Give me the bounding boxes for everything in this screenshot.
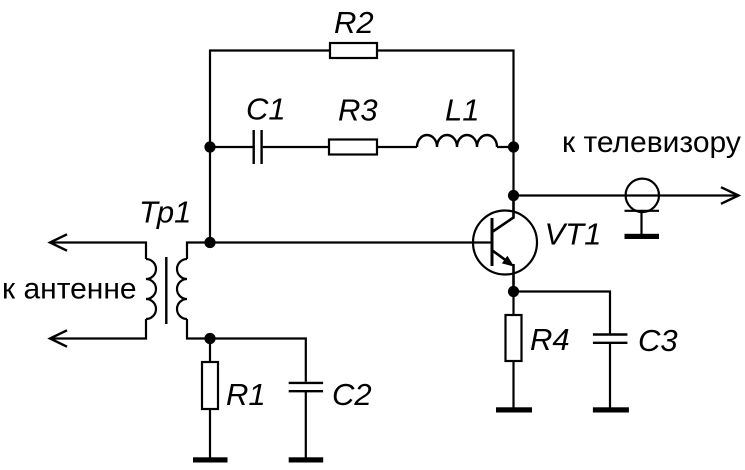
svg-text:C1: C1 [246,92,286,127]
transistor VT1 : collector lead [493,196,514,232]
wire: output wire to TV [514,194,738,196]
wire: emitter node to R4 [512,292,514,316]
transistor VT1 : emitter lead with arrow [493,251,509,263]
node: collector node on right rail [508,190,519,201]
connector socket XW1 : stub [640,211,642,234]
resistor R4 [506,315,522,361]
node: emitter node [508,286,519,297]
wire: secondary top lead [187,243,210,260]
resistor R1 [202,362,218,409]
resistor R2 [330,43,377,58]
connector socket XW1 : circle [626,179,659,212]
svg-text:C2: C2 [332,377,372,412]
transistor VT1 : envelope circle [473,211,537,275]
wire: C3 to ground [609,343,611,408]
transformer Tp1 : secondary winding (right) [177,259,187,319]
capacitor C3 [593,335,628,343]
ground: below C3 [593,407,629,412]
node: junction of left rail, secondary top lead and base wire [204,237,215,248]
svg-text:R2: R2 [334,5,374,40]
transformer Tp1 : core [165,257,167,324]
svg-text:к телевизору: к телевизору [562,126,741,159]
ground: below C2 [289,457,324,462]
ground: socket ground bar [625,234,660,239]
node: junction of left rail with C1 branch [204,141,215,152]
ground: below R1 [193,457,228,462]
wire: C1 to R3 [263,146,329,148]
wire: R1 to ground [209,409,211,458]
capacitor C2 [289,383,323,391]
wire: top wire right segment [377,49,515,51]
wire: middle row, node to C1 [210,146,253,148]
node: junction of secondary bottom lead, R1 and C2 [204,333,215,344]
svg-text:R4: R4 [530,322,570,357]
wire: L1 to right rail [497,146,514,148]
inductor L1 [417,135,497,147]
connector socket XW1 : contact line [625,210,660,212]
svg-text:R3: R3 [338,93,378,128]
wire: C2 to ground [305,391,307,457]
wire: left rail from top loop corner down to base node [209,50,211,243]
wire: node to C2 branch [210,339,306,382]
capacitor C1 [254,130,262,164]
svg-text:к антенне: к антенне [2,273,137,306]
resistor R3 [329,140,377,155]
node: junction of L1 row with right rail [508,141,519,152]
wire: R3 to L1 [377,146,417,148]
arrowhead: to TV arrow [721,187,739,204]
wire: right rail from top corner down through L1 node to collector node [512,50,514,196]
svg-text:C3: C3 [638,323,678,358]
wire: primary bottom lead to antenna [51,319,146,339]
wire: base wire from node to transistor [210,241,492,243]
transistor VT1 : base bar [491,218,494,266]
ground: below R4 [496,407,532,412]
wire: emitter node to C3 branch [514,292,611,335]
wire: node to R1 [209,339,211,363]
arrowhead: antenna upper arrow [50,234,67,250]
svg-text:Тр1: Тр1 [139,195,191,230]
wire: R4 to ground [512,361,514,408]
wire: secondary bottom lead [187,319,210,339]
transformer Tp1 : primary winding (left) [146,259,156,319]
svg-text:R1: R1 [226,377,266,412]
arrowhead: antenna lower arrow [50,330,67,346]
wire: top wire left segment [209,49,330,51]
wire: primary top lead to antenna [51,243,146,260]
svg-text:L1: L1 [445,93,479,128]
svg-text:VT1: VT1 [545,217,602,252]
